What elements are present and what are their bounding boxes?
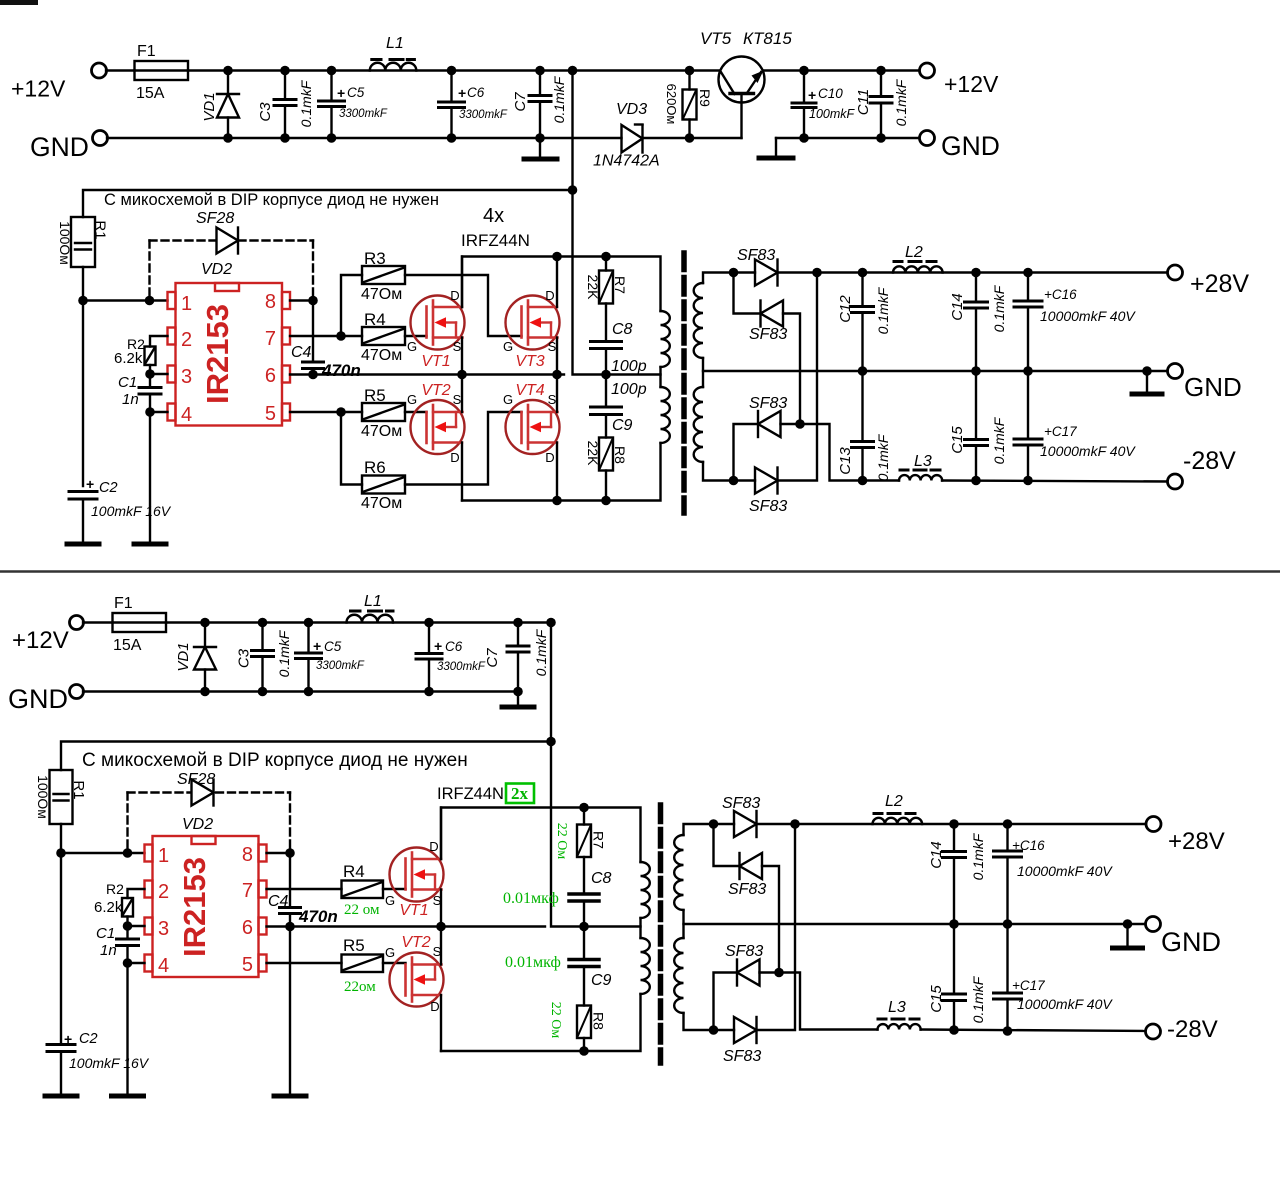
svg-text:0.1mkF: 0.1mkF bbox=[970, 832, 986, 880]
transistor VT4 bbox=[506, 400, 560, 454]
resistor R7 B bbox=[577, 808, 591, 895]
junction dot pin1 wire left bbox=[78, 296, 88, 306]
junction dot R8 bottom B bbox=[579, 1046, 589, 1056]
wire secondary top end bbox=[703, 273, 755, 284]
junction dot sec top bbox=[729, 268, 739, 278]
wire R1 top feed bbox=[83, 190, 573, 217]
resistor R1 bbox=[71, 217, 95, 267]
transistor VT1 bbox=[411, 296, 465, 350]
svg-text:0.1mkF: 0.1mkF bbox=[533, 628, 549, 676]
wire pin6 rail B bbox=[267, 925, 546, 927]
wire R4 to VT1 gate bbox=[405, 335, 427, 337]
wire pin2 to R2 B bbox=[128, 889, 145, 898]
wire D1 cathode to plus rail bbox=[778, 271, 1169, 273]
wire minus28 rail right B bbox=[921, 1030, 1147, 1032]
resistor R5 B bbox=[342, 955, 384, 973]
junction dot pin3 B bbox=[123, 921, 133, 931]
svg-text:VT1: VT1 bbox=[399, 902, 428, 919]
junction dots C16 bbox=[1023, 268, 1033, 278]
wire R1 to C2 bbox=[82, 267, 84, 486]
wire +12V to fuse B bbox=[83, 621, 113, 623]
ground C7 B bbox=[502, 705, 534, 710]
ground C1 B bbox=[112, 1094, 144, 1099]
svg-text:SF83: SF83 bbox=[737, 247, 775, 264]
svg-text:C9: C9 bbox=[591, 972, 612, 989]
wire top rail F1 to VT5 collector bbox=[188, 69, 720, 71]
junction dots C3 bbox=[280, 66, 290, 76]
junction dot sec bottom bbox=[729, 476, 739, 486]
wire secondary bottom end B bbox=[684, 1013, 735, 1030]
svg-text:C5: C5 bbox=[347, 85, 365, 100]
wire pin7 B bbox=[267, 888, 342, 890]
svg-text:VD3: VD3 bbox=[616, 101, 647, 118]
diode VD1 bbox=[217, 71, 239, 139]
transistor VT2 bbox=[411, 400, 465, 454]
svg-text:100p: 100p bbox=[611, 381, 647, 398]
junction dots C11 bbox=[876, 66, 886, 76]
svg-text:0.1mkF: 0.1mkF bbox=[875, 433, 891, 481]
label 2x green box bbox=[506, 784, 534, 804]
junction dot ground output B bbox=[1123, 919, 1133, 929]
diode VD1 B bbox=[194, 623, 216, 692]
svg-text:+C16: +C16 bbox=[1012, 838, 1045, 853]
svg-text:R5: R5 bbox=[343, 936, 365, 955]
svg-text:D: D bbox=[430, 999, 439, 1014]
svg-text:R4: R4 bbox=[364, 310, 386, 329]
svg-text:L2: L2 bbox=[905, 244, 923, 261]
svg-text:620Ом: 620Ом bbox=[664, 84, 679, 125]
wire R6 branch down bbox=[341, 412, 362, 485]
capacitor C4 bbox=[303, 362, 324, 375]
wire R1 to C2 B bbox=[60, 824, 62, 1044]
svg-text:L1: L1 bbox=[386, 35, 404, 52]
svg-text:C12: C12 bbox=[837, 295, 854, 323]
svg-text:C3: C3 bbox=[257, 102, 274, 122]
wire emitter to +12V out bbox=[764, 69, 921, 71]
fuse F1 bbox=[135, 61, 189, 80]
svg-text:S: S bbox=[548, 392, 557, 407]
svg-text:VD1: VD1 bbox=[201, 92, 218, 121]
svg-text:C14: C14 bbox=[928, 841, 945, 869]
wire minus28 rail right bbox=[942, 481, 1169, 482]
capacitor C14 bbox=[965, 273, 988, 372]
svg-text:3300mkF: 3300mkF bbox=[437, 661, 486, 673]
svg-text:С микосхемой в DIP корпусе дио: С микосхемой в DIP корпусе диод не нужен bbox=[82, 750, 468, 771]
svg-text:C4: C4 bbox=[268, 893, 289, 910]
capacitor C10 electrolytic bbox=[792, 71, 816, 139]
svg-text:10000mkF 40V: 10000mkF 40V bbox=[1040, 308, 1136, 324]
wire VT1 drain riser B bbox=[440, 808, 442, 860]
wire pin1 B bbox=[61, 852, 145, 854]
svg-text:0.1mkF: 0.1mkF bbox=[991, 416, 1007, 464]
transformer T1 secondary upper bbox=[694, 283, 703, 358]
diode SF83 D2 reversed bbox=[761, 301, 784, 327]
svg-text:10000mkF 40V: 10000mkF 40V bbox=[1017, 863, 1113, 879]
transistor VT1 B bbox=[390, 848, 444, 902]
junction dots C16 B bbox=[1003, 819, 1013, 829]
svg-text:7: 7 bbox=[265, 328, 276, 350]
junction dot descender top bbox=[568, 66, 578, 76]
capacitor C16 electrolytic bbox=[1014, 273, 1042, 372]
diode SF83 D1 bbox=[755, 260, 778, 286]
terminal GND out right bbox=[920, 131, 935, 146]
wire pin6 rail bbox=[290, 373, 564, 375]
svg-text:SF83: SF83 bbox=[749, 395, 787, 412]
svg-text:R2: R2 bbox=[106, 881, 124, 897]
svg-text:IR2153: IR2153 bbox=[177, 857, 212, 957]
svg-text:100Ом: 100Ом bbox=[57, 221, 73, 265]
svg-text:22 ом: 22 ом bbox=[344, 902, 380, 918]
svg-text:C3: C3 bbox=[236, 648, 253, 668]
ground output B bbox=[1113, 924, 1143, 948]
svg-text:SF83: SF83 bbox=[749, 326, 787, 343]
junction dot D2 D3 bbox=[795, 419, 805, 429]
junction dot R8 bottom bbox=[601, 496, 611, 506]
svg-text:+: + bbox=[64, 1031, 72, 1047]
transformer core B bbox=[658, 805, 664, 1063]
svg-text:470n: 470n bbox=[321, 361, 361, 380]
svg-text:КТ815: КТ815 bbox=[743, 29, 792, 48]
wire R3 branch up bbox=[341, 275, 362, 336]
svg-text:47Ом: 47Ом bbox=[361, 286, 402, 303]
svg-text:D: D bbox=[429, 839, 438, 854]
svg-text:IRFZ44N: IRFZ44N bbox=[437, 785, 504, 803]
svg-text:C10: C10 bbox=[818, 86, 843, 101]
wire VT3 drain riser bbox=[556, 257, 558, 308]
svg-text:8: 8 bbox=[242, 844, 253, 866]
svg-text:22 Ом: 22 Ом bbox=[548, 1002, 563, 1039]
capacitor C13 bbox=[852, 371, 874, 481]
svg-text:C6: C6 bbox=[445, 639, 463, 654]
junction dots C14 bbox=[971, 268, 981, 278]
svg-text:C15: C15 bbox=[949, 426, 966, 454]
junction dots C7 bbox=[535, 66, 545, 76]
capacitor C15 bbox=[965, 371, 988, 481]
resistor R5 bbox=[362, 403, 405, 421]
svg-text:0.1mkF: 0.1mkF bbox=[551, 75, 567, 123]
inductor L3 B bbox=[878, 1019, 921, 1030]
svg-text:+: + bbox=[337, 85, 345, 101]
terminal +28V B bbox=[1146, 817, 1161, 832]
svg-text:C7: C7 bbox=[512, 92, 529, 112]
junction dot C17 bottom bbox=[1023, 476, 1033, 486]
svg-text:6.2k: 6.2k bbox=[94, 899, 123, 916]
resistor R3 bbox=[362, 266, 405, 284]
svg-text:0.01мкф: 0.01мкф bbox=[503, 890, 559, 907]
svg-text:-28V: -28V bbox=[1167, 1016, 1218, 1043]
svg-text:GND: GND bbox=[941, 131, 1000, 161]
svg-text:R5: R5 bbox=[364, 386, 386, 405]
svg-text:0.1mkF: 0.1mkF bbox=[875, 286, 891, 334]
capacitor C9 bbox=[591, 375, 622, 438]
svg-text:R8: R8 bbox=[591, 1012, 607, 1030]
wire R4 to VT1 gate B bbox=[383, 888, 406, 890]
svg-text:VD2: VD2 bbox=[201, 261, 232, 278]
separator line bbox=[0, 570, 1280, 573]
svg-text:R9: R9 bbox=[697, 89, 713, 107]
wire D4 cathode riser bbox=[778, 273, 818, 481]
svg-text:VT2: VT2 bbox=[401, 934, 430, 951]
svg-text:2: 2 bbox=[181, 329, 192, 351]
junction dots C6 B bbox=[424, 618, 434, 628]
junction dot pin1 left B bbox=[56, 848, 66, 858]
wire pin3 bbox=[150, 373, 168, 375]
junction dot pin5 bbox=[336, 407, 346, 417]
junction dot D4 riser top bbox=[812, 268, 822, 278]
svg-text:7: 7 bbox=[242, 880, 253, 902]
IC U1 IR2153 body bbox=[168, 283, 291, 426]
resistor R9 bbox=[683, 71, 697, 139]
svg-text:1N4742A: 1N4742A bbox=[593, 153, 660, 170]
svg-text:0.1mkF: 0.1mkF bbox=[276, 629, 292, 677]
capacitor C2 electrolytic bbox=[69, 492, 97, 544]
svg-text:6.2k: 6.2k bbox=[114, 350, 143, 367]
terminal +12V input bbox=[92, 63, 107, 78]
svg-text:С микосхемой в DIP корпусе дио: С микосхемой в DIP корпусе диод не нужен bbox=[104, 191, 439, 209]
junction dots C5 bbox=[327, 66, 337, 76]
wire drain bus bottom bbox=[462, 443, 661, 501]
svg-text:+12V: +12V bbox=[12, 627, 69, 654]
svg-text:SF83: SF83 bbox=[723, 1048, 761, 1065]
junction dot descender top B bbox=[546, 618, 556, 628]
svg-text:D: D bbox=[450, 450, 459, 465]
svg-text:2: 2 bbox=[158, 881, 169, 903]
svg-text:C2: C2 bbox=[99, 480, 118, 496]
junction dot VT1 source B bbox=[436, 922, 446, 932]
svg-text:R1: R1 bbox=[92, 220, 109, 239]
capacitor C3 B bbox=[252, 623, 274, 692]
wire drain bus bottom B bbox=[441, 994, 641, 1051]
svg-text:+C17: +C17 bbox=[1012, 978, 1045, 993]
resistor R6 bbox=[362, 476, 405, 494]
wire pin8 bbox=[290, 299, 313, 301]
junction dots C10 bbox=[799, 66, 809, 76]
junction dots C7 B bbox=[513, 618, 523, 628]
junction dot pin4 bbox=[145, 407, 155, 417]
wire R3 to VT3 gate bbox=[405, 275, 522, 336]
svg-text:G: G bbox=[385, 945, 395, 960]
svg-text:SF28: SF28 bbox=[196, 210, 234, 227]
svg-text:10000mkF 40V: 10000mkF 40V bbox=[1017, 996, 1113, 1012]
svg-text:VD1: VD1 bbox=[175, 642, 192, 671]
wire D2 anode down B bbox=[762, 866, 779, 973]
wire VT2 source riser B bbox=[440, 927, 442, 965]
svg-text:VT4: VT4 bbox=[515, 382, 544, 399]
junction dot C8 bottom bbox=[601, 370, 611, 380]
wire pin7 bbox=[290, 335, 362, 337]
svg-text:L3: L3 bbox=[914, 453, 932, 470]
wire secondary bottom end bbox=[703, 462, 755, 481]
junction dot sec top B bbox=[709, 819, 719, 829]
svg-text:+28V: +28V bbox=[1168, 828, 1225, 855]
capacitor C4 B bbox=[280, 908, 301, 1096]
inductor L1 bbox=[370, 60, 417, 71]
capacitor C8 bbox=[591, 342, 622, 375]
wire gnd rail right bbox=[776, 137, 920, 139]
transistor VT3 bbox=[506, 296, 560, 350]
svg-text:+: + bbox=[86, 476, 94, 492]
transformer T1 primary upper bbox=[661, 311, 670, 367]
wire sec bottom to D3 bbox=[734, 424, 759, 481]
capacitor C15 B bbox=[943, 924, 966, 1030]
svg-text:100mkF 16V: 100mkF 16V bbox=[69, 1055, 150, 1071]
capacitor C16 electrolytic B bbox=[994, 824, 1022, 924]
junction dot feed bbox=[568, 185, 578, 195]
svg-text:C1: C1 bbox=[96, 925, 115, 942]
svg-text:VT5: VT5 bbox=[700, 29, 732, 48]
svg-text:F1: F1 bbox=[114, 595, 133, 612]
wire secondary top end B bbox=[684, 824, 735, 835]
svg-text:4: 4 bbox=[158, 955, 169, 977]
wire drain bus top B bbox=[441, 808, 641, 863]
wire top rail B bbox=[166, 621, 551, 623]
svg-text:C13: C13 bbox=[837, 447, 854, 475]
resistor R7 bbox=[599, 257, 613, 342]
svg-text:C7: C7 bbox=[484, 648, 501, 668]
diode VD2 SF28 B bbox=[192, 780, 214, 806]
svg-text:C11: C11 bbox=[855, 89, 872, 115]
terminal GND input bbox=[93, 131, 108, 146]
diode VD2 SF28 bbox=[217, 228, 239, 254]
capacitor C7 B bbox=[507, 623, 529, 707]
svg-text:3300mkF: 3300mkF bbox=[339, 108, 388, 120]
svg-text:IR2153: IR2153 bbox=[200, 304, 235, 404]
wire VT1 drain riser bbox=[461, 257, 463, 308]
wire D4 cathode riser B bbox=[757, 824, 796, 1030]
svg-text:+: + bbox=[434, 638, 442, 654]
transformer primary lower B bbox=[641, 938, 650, 994]
resistor R2 bbox=[145, 347, 156, 366]
svg-text:C4: C4 bbox=[291, 344, 312, 361]
wire sec top to D2 B bbox=[714, 824, 740, 866]
svg-text:G: G bbox=[385, 893, 395, 908]
svg-text:SF83: SF83 bbox=[722, 795, 760, 812]
svg-text:22K: 22K bbox=[585, 441, 601, 467]
svg-text:R8: R8 bbox=[612, 446, 628, 464]
wire secondary mid B bbox=[682, 910, 684, 938]
capacitor C14 B bbox=[943, 824, 966, 924]
svg-text:1n: 1n bbox=[100, 942, 117, 959]
terminal -28V B bbox=[1146, 1024, 1161, 1039]
ground C1 line bbox=[134, 542, 166, 547]
svg-text:L2: L2 bbox=[885, 793, 903, 810]
svg-text:3300mkF: 3300mkF bbox=[316, 660, 365, 672]
wire primary mid bbox=[659, 367, 661, 387]
wire pin1 bbox=[83, 299, 168, 301]
diode SF83 D4 B bbox=[734, 1017, 757, 1043]
wire C4 column B bbox=[289, 853, 291, 908]
wire VT2 source riser bbox=[461, 375, 463, 413]
svg-text:R3: R3 bbox=[364, 249, 386, 268]
svg-text:3: 3 bbox=[158, 918, 169, 940]
svg-text:+: + bbox=[313, 638, 321, 654]
capacitor C5 electrolytic bbox=[319, 71, 345, 139]
capacitor C7 bbox=[529, 71, 551, 159]
svg-text:1: 1 bbox=[181, 293, 192, 315]
IC U1 IR2153 body B bbox=[145, 836, 267, 977]
svg-text:10000mkF 40V: 10000mkF 40V bbox=[1040, 443, 1136, 459]
ground C2 B bbox=[45, 1094, 77, 1099]
junction dot dashed right bbox=[308, 296, 318, 306]
capacitor C1 B bbox=[117, 939, 139, 1095]
svg-text:VD2: VD2 bbox=[182, 816, 213, 833]
wire R5 to VT2 gate B bbox=[383, 962, 406, 964]
wire pin5 bbox=[290, 411, 362, 413]
svg-text:+12V: +12V bbox=[944, 71, 999, 97]
svg-text:VT1: VT1 bbox=[421, 353, 450, 370]
svg-text:SF83: SF83 bbox=[728, 881, 766, 898]
svg-text:15A: 15A bbox=[113, 637, 142, 654]
wire pin4 B bbox=[128, 962, 145, 964]
svg-text:100p: 100p bbox=[611, 358, 647, 375]
wire VT4 drain drop bbox=[556, 443, 558, 501]
svg-text:470n: 470n bbox=[298, 907, 338, 926]
wire VT3 source drop bbox=[556, 338, 558, 375]
transistor VT2 B bbox=[390, 953, 444, 1007]
junction dot sec bottom B bbox=[709, 1025, 719, 1035]
svg-text:1n: 1n bbox=[122, 391, 139, 408]
junction dot C15 bottom bbox=[971, 476, 981, 486]
svg-text:C15: C15 bbox=[928, 985, 945, 1013]
wire drain bus top bbox=[462, 257, 661, 312]
svg-text:+: + bbox=[808, 87, 816, 103]
svg-text:S: S bbox=[548, 339, 557, 354]
wire VT2 drain drop bbox=[461, 443, 463, 501]
svg-text:R1: R1 bbox=[70, 780, 87, 799]
capacitor C1 bbox=[139, 388, 161, 544]
transformer T1 primary lower bbox=[661, 387, 670, 443]
svg-text:R7: R7 bbox=[612, 276, 628, 294]
terminal GND input B bbox=[70, 685, 84, 699]
svg-text:22ом: 22ом bbox=[344, 979, 376, 995]
resistor R2 B bbox=[122, 898, 133, 917]
terminal +12V input B bbox=[70, 616, 84, 630]
transformer secondary upper B bbox=[674, 835, 683, 910]
junction dot D4 riser top B bbox=[790, 819, 800, 829]
svg-text:+12V: +12V bbox=[11, 76, 66, 102]
diode SF83 D3 reversed bbox=[758, 411, 781, 437]
wire R5 to VT2 gate bbox=[405, 411, 427, 413]
svg-text:GND: GND bbox=[1184, 372, 1242, 402]
zener diode VD3 bbox=[622, 125, 643, 153]
svg-text:C2: C2 bbox=[79, 1031, 98, 1047]
svg-text:S: S bbox=[453, 392, 462, 407]
junction dots C5 B bbox=[304, 618, 314, 628]
wire D2 anode down bbox=[783, 314, 800, 425]
junction dot C8 bottom B bbox=[579, 922, 589, 932]
terminal +28V bbox=[1168, 265, 1183, 280]
svg-text:+C17: +C17 bbox=[1044, 424, 1077, 439]
svg-text:G: G bbox=[407, 339, 417, 354]
svg-text:C1: C1 bbox=[118, 374, 137, 391]
junction dots C12 bbox=[858, 268, 868, 278]
junction dot dashed left B bbox=[123, 848, 133, 858]
wire D1 cathode to plus rail B bbox=[757, 823, 1148, 825]
svg-text:6: 6 bbox=[265, 365, 276, 387]
capacitor C9 B bbox=[569, 927, 599, 1006]
inductor L1 B bbox=[346, 611, 393, 623]
svg-text:D: D bbox=[450, 288, 459, 303]
capacitor C2 electrolytic B bbox=[47, 1045, 75, 1096]
wire sec top to D2 bbox=[734, 273, 761, 314]
svg-text:100mkF 16V: 100mkF 16V bbox=[91, 503, 172, 519]
wire GND rail B bbox=[83, 690, 518, 692]
inductor L3 bbox=[899, 470, 942, 481]
svg-text:0.01мкф: 0.01мкф bbox=[505, 954, 561, 971]
wire VT2 drain drop B bbox=[440, 995, 442, 1051]
wire VT1 source drop B bbox=[440, 890, 442, 927]
capacitor C8 B bbox=[569, 894, 599, 927]
